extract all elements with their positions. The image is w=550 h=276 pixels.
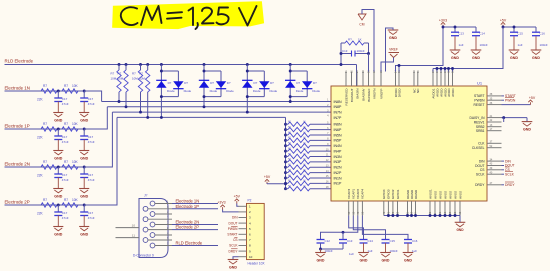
svg-text:PWDN: PWDN bbox=[228, 227, 238, 231]
wire +5V to bundle bbox=[267, 183, 286, 185]
ground first Electrode 1N bbox=[53, 112, 63, 114]
svg-text:IN1N: IN1N bbox=[334, 176, 343, 180]
wire Electrode 2P row bbox=[5, 204, 118, 206]
svg-text:IN6P: IN6P bbox=[334, 128, 343, 132]
net label PWDN bbox=[502, 99, 505, 101]
net label Electrode 2N at connector bbox=[172, 224, 218, 226]
ground C13 bbox=[450, 49, 461, 51]
svg-text:AVSS1: AVSS1 bbox=[428, 189, 432, 199]
IC top pin RESERVED bbox=[345, 72, 347, 87]
svg-text:GND: GND bbox=[532, 56, 540, 60]
resistor input R bundle row 11 bbox=[284, 155, 287, 158]
connector pin 8 bbox=[148, 229, 173, 231]
svg-text:DAISY_IN: DAISY_IN bbox=[469, 116, 485, 120]
svg-text:GND: GND bbox=[80, 194, 88, 198]
IC bottom pin AVSS bbox=[449, 201, 451, 216]
diode D? down-pointing of pair 2 bbox=[216, 81, 226, 88]
node Electrode 1P filter1 bbox=[57, 128, 60, 131]
svg-text:SCLK: SCLK bbox=[229, 244, 238, 248]
power +3V3 bbox=[442, 25, 444, 27]
resistor R7 22K row Electrode 1N bbox=[41, 89, 57, 93]
capacitor C14 1uF bottom bbox=[360, 239, 368, 241]
svg-text:D?: D? bbox=[313, 81, 317, 85]
svg-text:AVSS: AVSS bbox=[443, 191, 447, 199]
ground C14 bbox=[358, 252, 369, 254]
svg-text:Diode: Diode bbox=[226, 89, 234, 93]
svg-text:R7: R7 bbox=[43, 122, 47, 126]
capacitor C17 47nF second Electrode 1N bbox=[83, 91, 85, 98]
connector pin circle right 1 bbox=[150, 212, 155, 217]
svg-text:+3V3: +3V3 bbox=[439, 19, 447, 23]
svg-text:VCAP1: VCAP1 bbox=[352, 189, 356, 199]
svg-text:10: 10 bbox=[249, 255, 253, 259]
ground right of IC bbox=[522, 121, 533, 123]
svg-text:10K: 10K bbox=[72, 160, 79, 164]
svg-text:IN2N: IN2N bbox=[334, 166, 343, 170]
svg-text:CS: CS bbox=[480, 168, 485, 172]
IC top pin BIASINV bbox=[362, 72, 364, 87]
resistor R7 10K row Electrode 2N bbox=[62, 165, 78, 169]
resistor R7 22K row Electrode 2N bbox=[41, 165, 57, 169]
IC bottom pin AVSS bbox=[444, 201, 446, 216]
wire diode pair 2 bottom link bbox=[204, 96, 221, 98]
svg-text:VCAP2: VCAP2 bbox=[356, 189, 360, 199]
svg-text:C13: C13 bbox=[342, 49, 348, 53]
header pin 10 bbox=[239, 256, 247, 258]
resistor input R bundle row 6 bbox=[284, 128, 287, 131]
IC top pin AVDD bbox=[440, 72, 442, 87]
svg-text:Header 10X: Header 10X bbox=[248, 262, 266, 266]
svg-text:Diode: Diode bbox=[253, 89, 261, 93]
resistor input R bundle row 9 bbox=[284, 144, 287, 147]
wire electrode bus 2 bbox=[107, 106, 331, 108]
svg-text:11: 11 bbox=[132, 233, 135, 237]
svg-text:+3V3: +3V3 bbox=[217, 201, 225, 205]
resistor input R bundle row 7 bbox=[284, 134, 287, 137]
ground C14 bbox=[471, 49, 482, 51]
svg-text:IN5P: IN5P bbox=[334, 139, 343, 143]
connector pin 9 bbox=[148, 239, 173, 241]
capacitor C15 1uF bbox=[513, 27, 515, 32]
svg-text:C17: C17 bbox=[62, 211, 68, 215]
node Electrode 1N filter2 bbox=[83, 90, 86, 93]
capacitor C17 47nF second Electrode 2N bbox=[83, 167, 85, 174]
svg-text:Electrode 1P: Electrode 1P bbox=[5, 124, 30, 129]
svg-text:R?: R? bbox=[348, 38, 352, 42]
power +5V at header bbox=[236, 201, 238, 203]
svg-text:10: 10 bbox=[132, 223, 136, 227]
wire down to ground bbox=[526, 118, 528, 122]
net label DIN bbox=[502, 160, 505, 162]
svg-text:GND: GND bbox=[472, 56, 480, 60]
wire Electrode 1P riser to bus bbox=[84, 107, 107, 129]
svg-text:1uF: 1uF bbox=[518, 43, 523, 47]
svg-text:R7: R7 bbox=[43, 84, 47, 88]
svg-text:GND: GND bbox=[54, 232, 62, 236]
svg-text:DRDY: DRDY bbox=[228, 249, 238, 253]
ground arrow above VREFP bbox=[388, 29, 399, 31]
svg-text:D?: D? bbox=[227, 81, 231, 85]
svg-text:BIASREF: BIASREF bbox=[367, 88, 371, 101]
svg-text:1uF: 1uF bbox=[459, 43, 464, 47]
svg-text:D-Connector 9: D-Connector 9 bbox=[133, 254, 154, 258]
capacitor C17 47nF first Electrode 1P bbox=[57, 129, 59, 136]
wire diode pair 1 right leg bbox=[177, 71, 179, 97]
diode D? up-pointing of pair 1 bbox=[156, 79, 166, 81]
svg-text:AVSS: AVSS bbox=[453, 191, 457, 199]
power +3V3 at header bbox=[222, 207, 224, 209]
svg-text:IN8P: IN8P bbox=[334, 105, 343, 109]
svg-text:22K: 22K bbox=[37, 212, 44, 216]
svg-text:RESV1: RESV1 bbox=[474, 120, 485, 124]
svg-text:RESET: RESET bbox=[474, 103, 485, 107]
svg-text:GPIO3: GPIO3 bbox=[387, 189, 391, 199]
svg-text:10M: 10M bbox=[132, 77, 138, 81]
IC bottom pin GPIO2 bbox=[392, 201, 394, 216]
svg-text:VCAP4: VCAP4 bbox=[361, 189, 365, 199]
power +5V right bbox=[530, 102, 532, 104]
svg-text:GND: GND bbox=[317, 258, 325, 262]
wire diode pair 4 left leg bbox=[289, 63, 292, 66]
svg-text:CM: CM bbox=[359, 23, 364, 27]
svg-text:Diode: Diode bbox=[296, 89, 304, 93]
svg-text:AVSS: AVSS bbox=[458, 191, 462, 199]
svg-text:GND: GND bbox=[54, 118, 62, 122]
ground second Electrode 2P bbox=[79, 226, 89, 228]
svg-text:10K: 10K bbox=[72, 198, 79, 202]
svg-text:VREFP: VREFP bbox=[379, 89, 383, 99]
svg-text:PWDN: PWDN bbox=[505, 98, 516, 102]
resistor input R bundle row 8 bbox=[284, 139, 287, 142]
capacitor C17 47nF first Electrode 2N bbox=[57, 167, 59, 174]
header pin 8 bbox=[239, 245, 247, 247]
svg-text:RLD Electrode: RLD Electrode bbox=[5, 59, 34, 64]
svg-text:R7: R7 bbox=[118, 72, 122, 76]
wire combo right to BIASREF pin bbox=[368, 54, 370, 72]
resistor input R bundle row 16 bbox=[284, 182, 287, 185]
header pin 5 bbox=[239, 228, 247, 230]
svg-text:CLKSEL: CLKSEL bbox=[472, 146, 485, 150]
svg-text:R7: R7 bbox=[43, 160, 47, 164]
connector pin 7 bbox=[148, 218, 173, 220]
title handwritten text CM=1,25 V bbox=[121, 7, 138, 25]
wire C12 C13 bottom link bbox=[320, 243, 322, 249]
node Electrode 2N filter2 bbox=[83, 166, 86, 169]
svg-text:GND: GND bbox=[80, 118, 88, 122]
svg-text:C17: C17 bbox=[62, 135, 68, 139]
wire VCAP4 to C16 bbox=[362, 216, 408, 240]
svg-text:Diode: Diode bbox=[210, 89, 218, 93]
wire Electrode 1P row bbox=[5, 128, 108, 130]
wire diode pair 4 bottom link bbox=[290, 96, 307, 98]
wire AVDD pin drops bbox=[432, 69, 434, 72]
resistor input R bundle row 14 bbox=[284, 171, 287, 174]
svg-text:C16: C16 bbox=[540, 32, 546, 36]
resistor R7 22K row Electrode 2P bbox=[41, 203, 57, 207]
IC top pin BIASOUT bbox=[351, 72, 353, 87]
wire electrode bus 4 bbox=[117, 116, 286, 118]
resistor input R bundle row 13 bbox=[284, 166, 287, 169]
svg-text:GND: GND bbox=[456, 228, 464, 232]
diode D? down-pointing of pair 1 bbox=[173, 81, 183, 88]
wire diode pair 4 right leg bbox=[306, 71, 308, 97]
svg-text:SRB1: SRB1 bbox=[476, 129, 485, 133]
IC bottom pin AVSS bbox=[434, 201, 436, 216]
IC bottom pin DGND bbox=[411, 201, 413, 216]
svg-text:+5V: +5V bbox=[529, 96, 536, 100]
IC top pin BIASIN bbox=[356, 72, 358, 87]
ground C16 bbox=[403, 252, 414, 254]
capacitor C17 47nF second Electrode 1P bbox=[83, 129, 85, 136]
IC top pin DVDD bbox=[398, 72, 400, 87]
svg-text:R7: R7 bbox=[64, 84, 68, 88]
capacitor C17 47nF first Electrode 1N bbox=[57, 91, 59, 98]
wire C13 drop bbox=[342, 232, 344, 239]
diode D? down-pointing of pair 3 bbox=[259, 81, 269, 88]
svg-text:Electrode 2N: Electrode 2N bbox=[5, 162, 30, 167]
connector pin circle left 0 bbox=[143, 206, 148, 211]
power +5V at bundle bbox=[266, 182, 268, 184]
net label DRDY bbox=[502, 184, 505, 186]
connector pin circle left 3 bbox=[143, 238, 148, 243]
resistor R7 10K row Electrode 1N bbox=[62, 89, 78, 93]
ground first Electrode 2N bbox=[53, 188, 63, 190]
svg-text:BIASINV: BIASINV bbox=[361, 88, 365, 101]
svg-text:Electrode 2P: Electrode 2P bbox=[176, 225, 200, 230]
svg-text:47nF: 47nF bbox=[88, 178, 95, 182]
svg-text:10M: 10M bbox=[118, 77, 124, 81]
connector pin circle right 4 bbox=[150, 243, 155, 248]
svg-text:DIN: DIN bbox=[479, 159, 485, 163]
svg-text:GND: GND bbox=[510, 56, 518, 60]
connector pin circle right 3 bbox=[150, 233, 155, 238]
diode D? down-pointing of pair 4 bbox=[302, 81, 312, 88]
diode D? up-pointing of pair 4 bbox=[285, 79, 295, 81]
capacitor C15 100nF bottom bbox=[382, 239, 390, 241]
capacitor C13 1uF bbox=[454, 27, 456, 32]
svg-text:C13: C13 bbox=[459, 32, 465, 36]
wire DAISY_IN to GND wire bbox=[502, 117, 528, 119]
header pin 4 bbox=[239, 222, 247, 224]
node Electrode 1P filter2 bbox=[83, 128, 86, 131]
ground C12 C13 bbox=[320, 249, 322, 253]
svg-text:CLK: CLK bbox=[478, 142, 485, 146]
svg-text:R7: R7 bbox=[64, 122, 68, 126]
svg-text:C16: C16 bbox=[412, 239, 418, 243]
wire electrode bus 3 bbox=[112, 111, 331, 113]
net label Electrode 1N at connector bbox=[172, 203, 218, 205]
wire diode pair 3 left leg bbox=[246, 63, 249, 66]
wire electrode bus 1 bbox=[102, 101, 331, 103]
net label START bbox=[502, 95, 505, 97]
svg-text:DRDY: DRDY bbox=[505, 183, 515, 187]
resistor R7 10M 2 bbox=[125, 63, 128, 66]
svg-text:IN4P: IN4P bbox=[334, 149, 343, 153]
svg-text:47nF: 47nF bbox=[62, 216, 69, 220]
ground AVSS bus bbox=[459, 216, 461, 223]
ground C15 bbox=[380, 252, 391, 254]
svg-text:DVDD: DVDD bbox=[397, 88, 401, 98]
capacitor C17 47nF first Electrode 2P bbox=[57, 205, 59, 212]
svg-text:GND: GND bbox=[54, 194, 62, 198]
node Electrode 2N filter1 bbox=[57, 166, 60, 169]
IC bottom pin GPIO3 bbox=[387, 201, 389, 216]
svg-text:47nF: 47nF bbox=[88, 102, 95, 106]
svg-text:GND: GND bbox=[54, 156, 62, 160]
svg-text:D?: D? bbox=[168, 81, 172, 85]
svg-text:GND: GND bbox=[229, 265, 237, 269]
svg-text:Diode: Diode bbox=[270, 89, 278, 93]
wire RESET to +5V bbox=[502, 104, 531, 106]
wire diode pair 3 top link bbox=[247, 70, 264, 72]
wire Electrode 2N riser to bus bbox=[84, 112, 112, 167]
IC top pin AVDD bbox=[436, 72, 438, 87]
svg-text:D?: D? bbox=[184, 81, 188, 85]
diode D? up-pointing of pair 2 bbox=[199, 79, 209, 81]
svg-text:IN3N: IN3N bbox=[334, 155, 343, 159]
svg-text:BIASOUT: BIASOUT bbox=[350, 88, 354, 102]
svg-text:Electrode 1N: Electrode 1N bbox=[176, 199, 200, 204]
header pin 1 bbox=[239, 205, 247, 207]
wire header pin10 to GND bbox=[233, 257, 239, 260]
svg-text:IN3P: IN3P bbox=[334, 160, 343, 164]
connector pin 1 bbox=[155, 203, 173, 205]
svg-text:RLD Electrode: RLD Electrode bbox=[176, 241, 203, 246]
connector pin 2 bbox=[155, 213, 173, 215]
IC bottom pin AVSS bbox=[454, 201, 456, 216]
wire header pin1 to +5V bbox=[237, 204, 239, 207]
resistor input R bundle row 10 bbox=[284, 150, 287, 153]
wire Electrode 2N row bbox=[5, 166, 113, 168]
connector pin circle right 0 bbox=[150, 201, 155, 206]
svg-text:Diode: Diode bbox=[167, 89, 175, 93]
svg-text:R7: R7 bbox=[132, 72, 136, 76]
capacitor C16 1uF bottom bbox=[404, 239, 412, 241]
svg-text:1K: 1K bbox=[358, 38, 362, 42]
svg-text:C15: C15 bbox=[390, 239, 396, 243]
IC bottom pin VCAP2 bbox=[357, 201, 359, 216]
IC bottom pin VCAP1 bbox=[352, 201, 354, 216]
svg-text:GND: GND bbox=[80, 232, 88, 236]
svg-text:DRDY: DRDY bbox=[475, 183, 485, 187]
svg-text:GND: GND bbox=[382, 258, 390, 262]
svg-text:C14: C14 bbox=[480, 32, 486, 36]
resistor input R bundle row 5 bbox=[284, 123, 287, 126]
IC top pin NC bbox=[413, 72, 415, 87]
wire diode pair 2 left leg bbox=[203, 63, 206, 66]
wire header pin2 to +3V3 bbox=[223, 210, 239, 212]
svg-text:CS: CS bbox=[233, 238, 237, 242]
ground second Electrode 1N bbox=[79, 112, 89, 114]
svg-text:IN8N: IN8N bbox=[334, 100, 343, 104]
resistor input R bundle row 17 bbox=[284, 187, 287, 190]
IC top pin NC bbox=[417, 72, 419, 87]
IC top pin VREFN bbox=[373, 72, 375, 87]
connector pin 6 bbox=[148, 208, 173, 210]
svg-text:IN4N: IN4N bbox=[334, 144, 343, 148]
connector pin 3 bbox=[155, 224, 173, 226]
svg-text:C13: C13 bbox=[347, 239, 353, 243]
svg-text:10M: 10M bbox=[139, 77, 145, 81]
connector pin circle left 2 bbox=[143, 227, 148, 232]
svg-text:GPIO2: GPIO2 bbox=[391, 189, 395, 199]
wire CM to VREFN pin bbox=[362, 10, 374, 72]
capacitor C13 1uF bottom bbox=[339, 239, 347, 241]
svg-text:GPIO4: GPIO4 bbox=[382, 189, 386, 199]
svg-text:P2: P2 bbox=[248, 199, 252, 203]
svg-text:AVSS: AVSS bbox=[433, 191, 437, 199]
svg-text:SCLK: SCLK bbox=[505, 172, 515, 176]
svg-text:START: START bbox=[227, 233, 237, 237]
wire Electrode 1N row bbox=[5, 90, 102, 92]
svg-text:+5V: +5V bbox=[500, 19, 507, 23]
IC top pin DVDD bbox=[395, 72, 397, 87]
wire RESV1 join bbox=[503, 118, 505, 122]
IC bottom pin DGND bbox=[407, 201, 409, 216]
wire VREF to VREFN pin bbox=[381, 58, 394, 72]
ground C16 bbox=[531, 49, 542, 51]
wire diode pair 1 top link bbox=[161, 70, 178, 72]
IC bottom pin VCAP3 bbox=[348, 201, 350, 216]
connector pin circle right 2 bbox=[150, 222, 155, 227]
svg-text:AVDD: AVDD bbox=[451, 88, 455, 97]
wire diode pair 2 top link bbox=[204, 70, 221, 72]
svg-text:+5V: +5V bbox=[264, 175, 271, 179]
svg-text:DOUT: DOUT bbox=[228, 221, 237, 225]
IC bottom pin AVSS1 bbox=[429, 201, 431, 216]
svg-text:R7: R7 bbox=[64, 198, 68, 202]
wire VCAP2 to C12 C13 top link bbox=[321, 216, 358, 240]
svg-text:C15: C15 bbox=[518, 32, 524, 36]
wire DGND AVSS ground bus bbox=[384, 215, 460, 217]
wire +3V3 caps branch bbox=[443, 26, 476, 28]
capacitor C16 100nF bbox=[535, 27, 537, 32]
svg-text:22K: 22K bbox=[37, 98, 44, 102]
IC top pin VREFP bbox=[380, 72, 382, 87]
svg-text:1uF: 1uF bbox=[349, 252, 354, 256]
ground header bbox=[228, 259, 239, 261]
svg-text:C17: C17 bbox=[88, 97, 94, 101]
svg-text:U1: U1 bbox=[477, 81, 483, 86]
header pin 7 bbox=[239, 239, 247, 241]
IC bottom pin AVSS bbox=[439, 201, 441, 216]
ground C15 bbox=[509, 49, 520, 51]
svg-text:GPIO1: GPIO1 bbox=[396, 189, 400, 199]
svg-text:C17: C17 bbox=[62, 173, 68, 177]
svg-text:47nF: 47nF bbox=[88, 216, 95, 220]
wire RLD rail drop to BIASIN pin bbox=[356, 65, 358, 87]
svg-text:GND: GND bbox=[523, 127, 531, 131]
svg-text:GND: GND bbox=[404, 258, 412, 262]
svg-text:10M: 10M bbox=[111, 77, 117, 81]
power +5V top bbox=[502, 25, 504, 27]
resistor R7 10K row Electrode 2P bbox=[62, 203, 78, 207]
wire diode pair 3 right leg bbox=[263, 71, 265, 97]
capacitor C13 100nF feedback bbox=[341, 53, 352, 55]
svg-text:R7: R7 bbox=[64, 160, 68, 164]
svg-text:IN6N: IN6N bbox=[334, 123, 343, 127]
IC bottom pin GPIO1 bbox=[397, 201, 399, 216]
svg-text:VCAP3: VCAP3 bbox=[347, 189, 351, 199]
IC bottom pin GPIO4 bbox=[383, 201, 385, 216]
capacitor C14 100nF bbox=[475, 27, 477, 32]
svg-text:C14: C14 bbox=[368, 239, 374, 243]
node Electrode 1N filter1 bbox=[57, 90, 60, 93]
svg-text:10K: 10K bbox=[72, 84, 79, 88]
svg-text:IN7N: IN7N bbox=[334, 110, 343, 114]
wire bundle vertical bus bbox=[285, 117, 287, 188]
connector pin circle left 1 bbox=[143, 217, 148, 222]
